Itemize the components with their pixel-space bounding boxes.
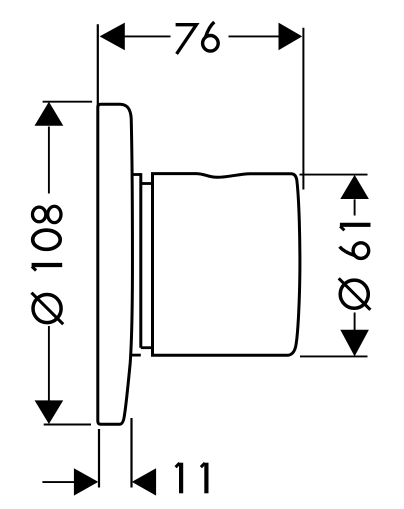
dim 108: top arrow (35, 102, 64, 126)
dim 76: left arrow (100, 23, 125, 51)
sleeve right vertical (139, 173, 142, 348)
dim 108: line bottom segment (48, 326, 50, 401)
dim 61: line top segment (354, 199, 356, 215)
sleeve top edge (131, 173, 141, 176)
dim 61: line bottom segment (354, 313, 356, 331)
dim 108: digit 0 (rotated) (33, 230, 61, 249)
dim 108: diameter symbol (rotated) (32, 293, 64, 325)
dim 11: left arrow (74, 468, 98, 495)
dim 76: left extension line (97, 24, 99, 106)
step top (141, 182, 153, 185)
dim 76: line right segment (229, 35, 280, 37)
dim 61: bottom extension line (300, 355, 368, 357)
dim 61: diameter symbol (rotated) (339, 278, 371, 310)
sleeve bottom edge (131, 354, 141, 357)
dim 108: bottom extension line (44, 424, 91, 426)
dim 108: top extension line (43, 101, 93, 103)
dim 61: bottom arrow (340, 330, 369, 357)
dim 76: right extension line (302, 28, 304, 190)
dim 61: top arrow (340, 175, 369, 199)
dim 11: right arrow (132, 468, 156, 495)
dim 76: line left segment (124, 35, 171, 37)
dim 11: right extension line (130, 418, 132, 488)
dim 11: line left segment (42, 481, 74, 483)
dim 108: bottom arrow (35, 400, 64, 424)
dim 11: left extension line (98, 429, 100, 488)
dim 61: digit 6 (rotated) (340, 243, 369, 259)
escutcheon plate body (98, 104, 133, 424)
dim 61: top extension line (300, 174, 368, 176)
dim 108: line top segment (48, 127, 50, 194)
dim 76: digit 6 (203, 22, 219, 51)
step bottom (141, 346, 153, 349)
dim 108: digit 8 (rotated) (33, 206, 62, 222)
dim 61: digit 1 (rotated) (340, 225, 371, 231)
dim 76: right arrow (279, 23, 303, 51)
dim 11: first digit 1 (176, 463, 182, 494)
dim 108: digit 1 (rotated) (32, 265, 63, 271)
dim 11: second digit 1 (201, 463, 207, 494)
dim 76: digit 7 (176, 25, 197, 54)
knob outline (153, 174, 300, 356)
